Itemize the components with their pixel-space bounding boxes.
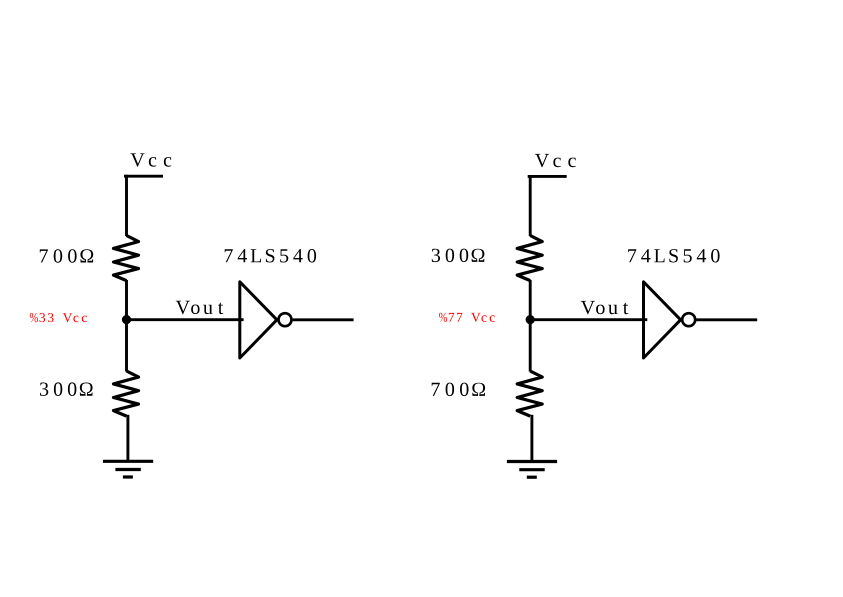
wire R4 to ground — [530, 415, 533, 462]
wire node B to R4 — [529, 320, 532, 372]
value label 300 ohm (left) — [40, 382, 93, 396]
resistor R4 700 ohm (right bottom) — [517, 371, 542, 416]
wire R1 to node A — [125, 280, 128, 320]
node B junction dot (right) — [526, 315, 535, 324]
net label Vcc (right) — [535, 154, 576, 167]
power symbol Vcc bar (left) — [124, 175, 163, 178]
value label 300 ohm (right) — [432, 249, 485, 263]
annotation %33 Vcc (left node voltage) — [30, 313, 87, 322]
net label Vout (left) — [176, 301, 223, 314]
power symbol Vcc bar (right) — [528, 175, 567, 178]
inverter U1 triangle 74LS540 (left) — [240, 282, 277, 358]
wire node A to R2 — [125, 320, 128, 372]
wire Vcc to R3 — [529, 175, 532, 236]
wire node A to inverter input — [127, 318, 244, 321]
resistor R2 300 ohm (left bottom) — [114, 371, 139, 416]
part label 74LS540 (right) — [628, 249, 719, 263]
wire inverter output (left) — [293, 318, 354, 321]
ground symbol (left) — [103, 461, 153, 477]
inversion bubble (left) — [279, 313, 292, 326]
value label 700 ohm (right) — [432, 383, 485, 397]
resistor R3 300 ohm (right top) — [517, 236, 542, 281]
net label Vcc (left) — [131, 153, 172, 166]
value label 700 ohm (left) — [40, 249, 93, 263]
wire inverter output (right) — [696, 318, 757, 321]
ground symbol (right) — [507, 462, 557, 478]
inverter U2 triangle 74LS540 (right) — [644, 282, 681, 358]
inversion bubble (right) — [682, 313, 695, 326]
annotation %77 Vcc (right node voltage) — [439, 313, 495, 322]
part label 74LS540 (left) — [225, 249, 316, 263]
wire node B to inverter input — [530, 318, 647, 321]
wire R2 to ground — [126, 415, 129, 462]
net label Vout (right) — [581, 301, 628, 314]
node A junction dot (left) — [122, 315, 131, 324]
resistor R1 700 ohm (left top) — [114, 236, 139, 281]
wire Vcc to R1 — [125, 175, 128, 236]
wire R3 to node B — [529, 280, 532, 320]
